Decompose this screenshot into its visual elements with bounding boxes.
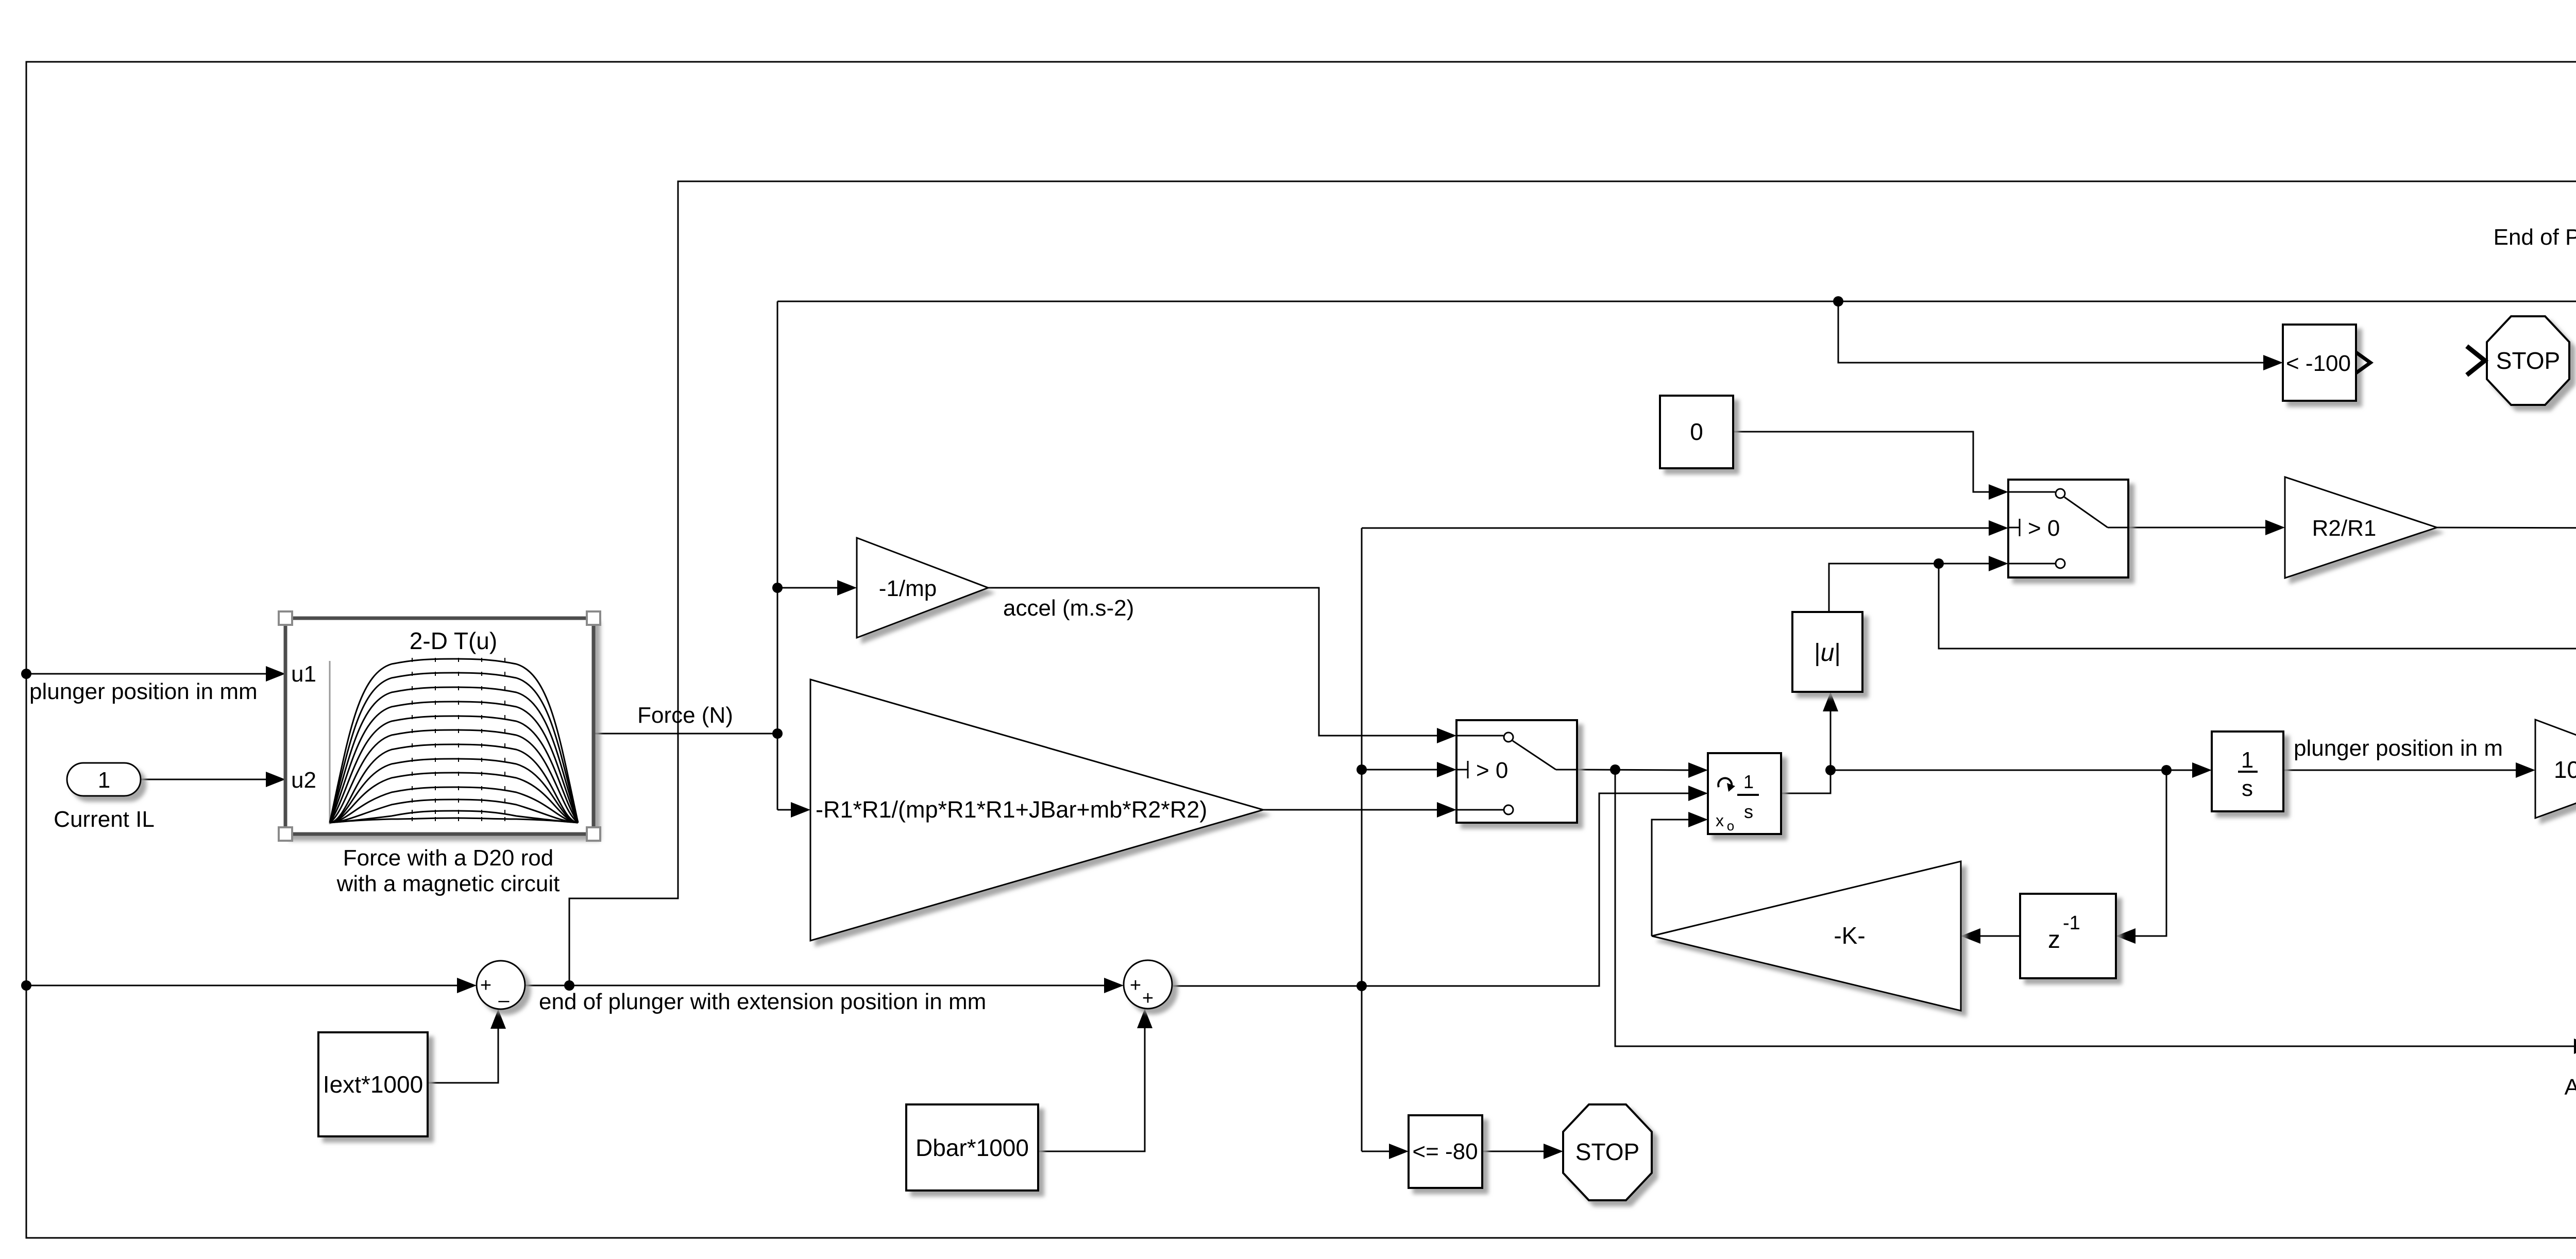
svg-text:-K-: -K- <box>1834 922 1865 949</box>
svg-text:0: 0 <box>1690 418 1703 445</box>
svg-text:-R1*R1/(mp*R1*R1+JBar+mb*R2*R2: -R1*R1/(mp*R1*R1+JBar+mb*R2*R2) <box>816 796 1207 823</box>
svg-text:Accel (m.s-2): Accel (m.s-2) <box>2564 1075 2576 1100</box>
svg-text:Force (N): Force (N) <box>637 703 733 728</box>
svg-text:< -100: < -100 <box>2286 351 2351 376</box>
svg-text:2-D T(u): 2-D T(u) <box>410 627 497 654</box>
svg-text:Dbar*1000: Dbar*1000 <box>916 1134 1029 1161</box>
svg-text:o: o <box>1727 818 1734 833</box>
svg-text:Force with a D20 rod: Force with a D20 rod <box>343 845 553 871</box>
svg-text:End of Plunger+Extension posit: End of Plunger+Extension position (mm) <box>2494 225 2576 250</box>
svg-text:s: s <box>1744 801 1753 822</box>
svg-text:-1/mp: -1/mp <box>879 576 937 601</box>
svg-text:plunger position in m: plunger position in m <box>2294 736 2503 761</box>
svg-text:R2/R1: R2/R1 <box>2312 516 2377 541</box>
svg-text:STOP: STOP <box>1575 1138 1639 1165</box>
svg-text:+: + <box>1142 988 1154 1009</box>
svg-text:with a magnetic circuit: with a magnetic circuit <box>336 871 560 896</box>
svg-text:+: + <box>1130 975 1141 996</box>
svg-text:x: x <box>1716 811 1724 830</box>
svg-text:> 0: > 0 <box>1476 758 1508 783</box>
svg-text:s: s <box>2242 776 2253 801</box>
svg-text:> 0: > 0 <box>2028 516 2060 541</box>
svg-text:<= -80: <= -80 <box>1412 1139 1478 1164</box>
svg-text:+: + <box>480 975 492 996</box>
svg-text:u1: u1 <box>291 661 316 687</box>
svg-text:u2: u2 <box>291 768 316 793</box>
svg-text:plunger position in mm: plunger position in mm <box>29 679 258 704</box>
svg-text:end of plunger with extension: end of plunger with extension position i… <box>539 989 986 1014</box>
svg-text:Current IL: Current IL <box>54 807 155 832</box>
svg-text:z: z <box>2048 926 2060 954</box>
svg-text:1: 1 <box>1743 771 1754 792</box>
svg-text:STOP: STOP <box>2496 347 2560 374</box>
svg-text:Iext*1000: Iext*1000 <box>323 1071 423 1098</box>
svg-text:1: 1 <box>98 768 110 793</box>
svg-text:accel (m.s-2): accel (m.s-2) <box>1003 596 1134 621</box>
svg-text:1000: 1000 <box>2554 756 2576 783</box>
svg-text:–: – <box>498 990 510 1011</box>
svg-text:|u|: |u| <box>1814 639 1841 667</box>
svg-text:-1: -1 <box>2063 912 2080 934</box>
svg-text:1: 1 <box>2241 747 2253 773</box>
